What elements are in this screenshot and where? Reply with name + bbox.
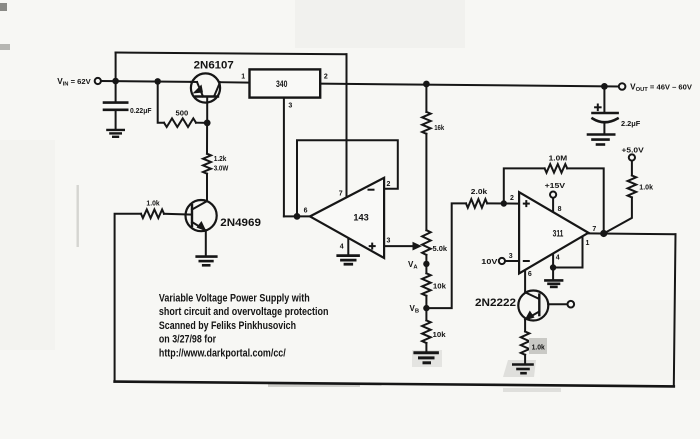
svg-text:0.22μF: 0.22μF [130,106,152,115]
node VB junction [423,305,429,311]
junction node: 311 pin4/pin1 ground [550,264,556,270]
svg-text:+5.0V: +5.0V [622,146,644,155]
svg-text:500: 500 [176,108,189,117]
junction node: rail/2.2uF [601,83,608,90]
junction node: 143 pin6/feedback [294,213,301,220]
terminal VOUT (open circle) [619,83,626,90]
svg-text:5.0k: 5.0k [433,244,448,253]
svg-text:2: 2 [387,181,391,188]
svg-text:3.0W: 3.0W [214,164,229,173]
resistor 1.0M [545,164,568,173]
terminal +15V (open circle) [550,192,556,198]
terminal VIN (open circle) [95,78,101,84]
svg-text:10k: 10k [433,330,447,339]
svg-text:340: 340 [276,79,287,89]
transistor Q1 2N6107 (PNP pass) [191,73,220,102]
wire: 1.0k to ground [524,355,526,363]
svg-text:2N6107: 2N6107 [194,60,234,72]
plus sign (311 pin2) [523,200,530,207]
minus sign (311 pin3) [523,260,530,262]
wire: left 1.0k feed from bottom rail [115,214,141,382]
capacitor 0.22uF plates [104,103,127,110]
scan smudge under divider ground [412,350,442,367]
wire: 1.0k to 2N4969 base [164,213,192,216]
svg-text:4: 4 [340,243,344,250]
svg-text:8: 8 [558,206,562,213]
svg-text:+15V: +15V [545,181,566,190]
plus mark (2.2uF) [594,104,602,112]
junction node: output/1.0M/1.0k [600,230,607,237]
capacitor 2.2uF (polarized) [593,113,618,122]
wire: 2N2222 base to terminal [548,303,567,305]
plus sign (143 pin3) [369,243,376,250]
svg-text:10k: 10k [433,282,447,291]
wire: input cap from rail down [115,81,117,101]
wiper arrow into 5.0k pot [413,242,422,251]
wire: main rail right (340 pin 2 to VOUT) [320,84,619,87]
wire: 500 branch down from rail [158,81,164,122]
wire: 1.0M loop right leg to output [567,168,604,233]
comparator U3 311 triangle [519,192,588,273]
transistor Q3 2N2222 (NPN) [518,291,548,321]
resistor 1.0k (left) [141,210,164,219]
svg-text:1.0k: 1.0k [532,343,546,352]
resistor 10k (VA-VB) [422,273,431,296]
svg-text:Scanned by Feliks Pinkhusovich: Scanned by Feliks Pinkhusovich [159,320,296,332]
resistor 2.0k [466,199,487,208]
svg-text:6: 6 [304,208,308,215]
svg-text:16k: 16k [434,123,445,132]
ground (2N4969 emitter) [197,257,217,266]
wire: 2.0k to 311 plus input [487,202,519,204]
wire: 1.0M loop left leg [504,168,545,203]
svg-text:2N2222: 2N2222 [475,297,516,309]
ground (311 pin 4) [545,280,562,287]
junction node: 311 +input/1.0M [501,200,507,206]
svg-text:3: 3 [288,102,292,109]
resistor 1.0k (+5V pull-up) [628,176,637,198]
svg-text:1.2k: 1.2k [214,154,227,163]
scan smudge under 2N2222 ground [503,360,536,377]
wire: 16k down to 5.0k pot [425,134,427,230]
wire: VOUT cap to ground [603,124,605,133]
terminal 2N2222 base (open circle) [568,301,575,308]
svg-text:3: 3 [387,238,391,245]
svg-text:7: 7 [339,190,343,197]
wire: 2N6107 base down to junction [206,97,208,123]
svg-text:http://www.darkportal.com/cc/: http://www.darkportal.com/cc/ [159,347,286,359]
wire: 311 pin 6 down to 2N2222 collector [524,270,526,292]
ground (divider bottom) [415,353,438,363]
wire: 1.2k to 2N4969 collector [206,174,208,201]
ground (2.2uF) [588,135,614,145]
junction node: 500/1.2k/Q1 base [204,120,211,127]
faint scan mottling patches [295,0,465,48]
node VA junction [423,261,429,267]
wire: 500 resistor to base junction [196,122,207,124]
svg-text:311: 311 [553,228,564,238]
svg-text:1.0k: 1.0k [639,183,653,192]
wire: VOUT cap from rail down [603,86,605,112]
wire: 10V terminal to 311 pin 3 [505,260,519,262]
svg-text:Variable Voltage Power Supply: Variable Voltage Power Supply with [159,293,310,305]
ground (0.22uF) [107,130,123,137]
value 1.0k (2N2222 emitter) over grey smudge [529,338,547,354]
minus sign (143 pin2) [368,189,375,191]
wire: 311 output to right edge [588,232,675,235]
wire: right edge down to bottom rail [674,234,676,386]
svg-text:2.0k: 2.0k [471,187,488,196]
wire: 340 pin 3 down to 143 pin 6 net [283,98,285,217]
wire: 143 feedback loop pin6 to pin2 [297,140,398,216]
wire: VB across and up to 2.0k [426,203,466,308]
scan speck top-left corner [0,3,7,11]
transistor Q2 2N4969 (NPN) [186,200,217,232]
wire: 143 pin 6 horizontal [284,215,310,217]
svg-text:1.0M: 1.0M [549,154,568,163]
wire: rail down to 16k [425,84,427,112]
junction node: rail/16k [423,81,430,88]
wire: input cap to ground [115,111,117,130]
scan streak left [77,185,79,247]
svg-text:2N4969: 2N4969 [220,217,261,229]
resistor 500 [164,118,196,127]
wire: 10k to VB to 10k [425,296,427,321]
resistor 16k [422,112,431,134]
wire: top bypass down to 143 pin 7 [346,54,348,197]
wire: bottom rail [115,382,674,387]
svg-text:6: 6 [528,271,532,278]
wire: main rail left (VIN to 2N6107 emitter) [101,80,191,83]
wire: +5.0V terminal to 1.0k [631,161,633,176]
svg-text:short circuit and overvoltage: short circuit and overvoltage protection [159,306,329,318]
wire: 143 pin 4 to ground [347,238,349,255]
wire: pot to VA to 10k [425,255,427,273]
svg-text:7: 7 [592,226,596,233]
svg-text:2.2μF: 2.2μF [621,119,641,128]
svg-text:3: 3 [509,253,513,260]
resistor 1.0k (2N2222 emitter) [521,332,530,355]
svg-text:2: 2 [510,195,514,202]
svg-text:4: 4 [556,255,560,262]
wire: lower 10k to ground [425,343,427,352]
resistor 1.2k 3.0W [203,154,211,174]
ground (143 pin 4) [338,256,359,265]
wire: 2N2222 emitter to 1.0k [524,320,526,332]
svg-text:1: 1 [586,240,590,247]
wire: +15V to 311 pin 8 [552,198,554,212]
wire: 311 pin 1 strap to ground junction [553,236,582,267]
wire: top bypass horizontal [116,53,347,55]
svg-text:143: 143 [353,213,368,223]
resistor 10k (VB-gnd) [422,320,431,343]
wire: junction down to 1.2k [206,123,208,154]
svg-text:2: 2 [324,74,328,81]
wire: 2N6107 collector to 340 pin 1 [220,81,249,83]
svg-text:10V: 10V [481,257,497,266]
svg-text:1: 1 [241,74,245,81]
junction node: rail/500 [154,78,161,85]
svg-text:1.0k: 1.0k [146,199,160,208]
svg-text:on 3/27/98 for: on 3/27/98 for [159,334,217,346]
wire: 143 pin 3 output to pot wiper [384,245,414,247]
scan smudge under bottom rail [268,384,360,387]
potentiometer 5.0k [422,230,431,255]
terminal 10V (open circle) [499,258,505,264]
wire: 2N4969 emitter to ground [205,230,207,255]
regulator U1 340 box [250,69,321,97]
terminal +5.0V (open circle) [629,154,635,160]
wire: 1.0k diagonal to output node [604,197,632,233]
ground (2N2222 emitter 1.0k) [513,365,532,374]
op-amp U2 143 triangle [310,178,384,258]
junction node: rail/top-wire/cap [112,78,119,85]
wire: 311 pin 4 down to ground junction [552,254,554,280]
wire: top bypass up from input junction [115,53,117,82]
